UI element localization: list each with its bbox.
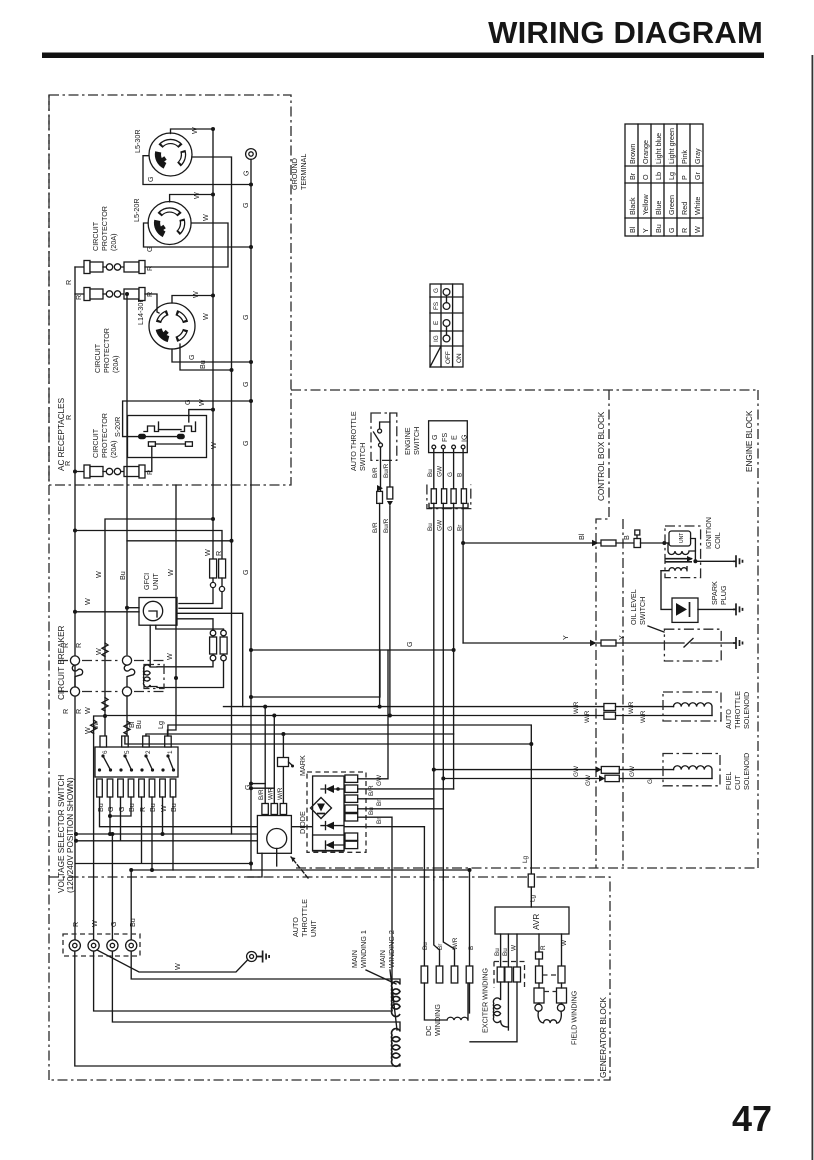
secondary winding: [661, 567, 687, 571]
svg-text:WINDING 1: WINDING 1: [359, 930, 368, 968]
coil input connector: [634, 530, 664, 548]
wire Bu bus from L5-30R: [192, 157, 232, 834]
auto throttle switch box: [371, 413, 397, 492]
pin wires: [358, 650, 388, 779]
svg-text:Gr: Gr: [693, 171, 702, 180]
svg-text:W: W: [693, 226, 702, 233]
svg-text:W/R: W/R: [640, 710, 647, 723]
svg-text:OIL LEVEL: OIL LEVEL: [629, 589, 638, 625]
wire nest below VSS: [100, 797, 425, 827]
svg-text:W/R: W/R: [573, 701, 580, 714]
svg-text:Y: Y: [617, 635, 626, 640]
svg-text:SOLENOID: SOLENOID: [742, 692, 751, 729]
wire Bu into GFCI: [127, 607, 139, 609]
diode D1: [321, 785, 344, 793]
oil level switch contact: [684, 639, 733, 648]
svg-text:FS: FS: [440, 433, 449, 442]
svg-text:Br: Br: [376, 799, 383, 806]
svg-text:B: B: [622, 535, 631, 540]
svg-text:Gray: Gray: [693, 148, 702, 164]
auto throttle solenoid dashed box: [663, 692, 721, 721]
svg-text:CIRCUIT: CIRCUIT: [93, 343, 102, 373]
main winding 1 coil: [392, 981, 400, 1016]
svg-text:AUTO THROTTLE: AUTO THROTTLE: [349, 411, 358, 471]
svg-text:SWITCH: SWITCH: [412, 427, 421, 455]
svg-text:S-20R: S-20R: [113, 417, 122, 437]
svg-text:DIODE: DIODE: [298, 811, 307, 834]
svg-text:W: W: [166, 569, 175, 576]
svg-text:W: W: [94, 571, 103, 578]
svg-text:FS: FS: [433, 302, 440, 310]
svg-text:PLUG: PLUG: [719, 585, 728, 605]
svg-text:UNIT: UNIT: [151, 573, 160, 590]
svg-text:W: W: [203, 549, 212, 556]
svg-text:Lg: Lg: [530, 894, 537, 902]
svg-text:(120/240V POSITION SHOWN): (120/240V POSITION SHOWN): [66, 777, 75, 893]
breaker dash-dot tie lines: [58, 660, 165, 662]
ground terminal: [246, 149, 257, 160]
control/engine area dashed box top: [291, 389, 758, 391]
resistor zigzag W: [91, 720, 97, 733]
outer left dashed border: [48, 95, 50, 1080]
svg-text:GW: GW: [437, 519, 444, 531]
svg-text:R: R: [145, 292, 154, 297]
svg-text:W: W: [91, 722, 100, 729]
GFCI trip coil: [143, 665, 164, 689]
svg-text:W: W: [201, 214, 210, 221]
svg-text:G: G: [146, 176, 155, 182]
sensing resistor pair lower: [157, 630, 227, 687]
svg-text:2: 2: [145, 750, 152, 754]
VSS top stub terminals: [100, 736, 171, 747]
svg-text:Br: Br: [437, 943, 444, 950]
svg-text:G: G: [647, 779, 654, 784]
svg-text:Br: Br: [628, 172, 637, 180]
svg-text:Bu/R: Bu/R: [383, 463, 390, 478]
coil output to ground: [691, 539, 733, 562]
main winding 2 coil: [392, 1029, 400, 1067]
wire G bus: [250, 159, 252, 870]
svg-text:White: White: [693, 197, 702, 215]
svg-text:W: W: [83, 598, 92, 605]
svg-text:WINDING 2: WINDING 2: [387, 930, 396, 968]
svg-text:Green: Green: [667, 195, 676, 215]
svg-text:W: W: [83, 707, 92, 714]
wire G from L5-20R: [249, 245, 253, 249]
svg-text:B/R: B/R: [372, 522, 379, 533]
svg-text:IG: IG: [433, 335, 440, 342]
resistor zigzag Bl: [124, 721, 130, 734]
spark plug box: [672, 598, 733, 622]
engine switch lead wires: [434, 449, 463, 489]
svg-text:FUEL: FUEL: [724, 772, 733, 790]
svg-text:Bu: Bu: [128, 918, 137, 927]
svg-text:Bu: Bu: [118, 571, 127, 580]
diode block inner box: [313, 776, 344, 851]
field connector rects row2: [534, 988, 544, 1003]
svg-text:GW: GW: [437, 465, 444, 477]
circuit protector CP1: [75, 223, 228, 274]
fuel cut solenoid connectors: [596, 766, 602, 773]
svg-text:B/R: B/R: [258, 789, 265, 800]
svg-text:ON: ON: [456, 353, 463, 363]
svg-text:W/R: W/R: [584, 710, 591, 723]
fuel cut solenoid dashed box: [663, 754, 720, 786]
svg-text:CIRCUIT: CIRCUIT: [91, 428, 100, 458]
svg-text:Light blue: Light blue: [654, 133, 663, 164]
auto throttle solenoid connectors: [604, 704, 616, 711]
svg-text:Lg: Lg: [522, 855, 529, 863]
ignition coil unit box: [664, 531, 690, 546]
frame ground wire W: [97, 950, 248, 972]
wire into GFCI left: [75, 611, 139, 613]
wire W down from AC box: [168, 485, 177, 737]
svg-text:5: 5: [124, 750, 131, 754]
svg-text:PROTECTOR: PROTECTOR: [100, 413, 109, 458]
svg-text:R: R: [214, 551, 223, 556]
engine switch drops: [434, 503, 602, 769]
wire W drop to selector: [105, 519, 213, 736]
svg-text:Yellow: Yellow: [641, 194, 650, 215]
svg-text:W: W: [192, 192, 201, 199]
svg-text:Br: Br: [376, 817, 383, 824]
duplex receptacle S-20R: [128, 416, 207, 458]
wire G from L5-20R wrap: [144, 223, 252, 247]
wire R feed to GFCI resistor: [75, 531, 222, 560]
svg-text:GW: GW: [573, 765, 580, 777]
auto throttle unit relay box: [257, 816, 291, 854]
svg-text:R: R: [63, 461, 72, 466]
engine switch box: [429, 421, 469, 453]
wire Bu link: [127, 540, 232, 542]
svg-text:GFCI: GFCI: [142, 573, 151, 590]
svg-text:AVR: AVR: [532, 914, 541, 930]
primary winding: [668, 543, 695, 555]
page right edge scan line: [812, 55, 814, 1160]
svg-text:MAIN: MAIN: [378, 950, 387, 968]
Lg connector above AVR: [528, 874, 534, 887]
svg-text:G: G: [241, 440, 250, 446]
resistor zigzag 1: [102, 643, 108, 656]
control/engine area dashed bottom: [296, 867, 758, 869]
svg-text:PROTECTOR: PROTECTOR: [102, 328, 111, 373]
svg-text:DC: DC: [424, 1026, 433, 1036]
svg-text:(20A): (20A): [111, 355, 120, 373]
exciter winding coil: [493, 982, 508, 1027]
ground symbol oil switch: [733, 637, 743, 649]
svg-text:W: W: [90, 920, 99, 927]
svg-text:Bu: Bu: [134, 720, 143, 729]
svg-text:W: W: [94, 648, 103, 655]
leader to relay box: [291, 857, 308, 878]
svg-text:WINDING: WINDING: [433, 1004, 442, 1036]
DC winding coil: [424, 983, 469, 1020]
wire W/R bus: [105, 715, 604, 717]
svg-text:Bu: Bu: [427, 469, 434, 477]
wire W to MW1 bottom: [94, 951, 392, 1011]
svg-text:GROUND: GROUND: [290, 158, 299, 190]
svg-text:G: G: [433, 288, 440, 293]
terminal W: [88, 940, 99, 951]
svg-text:SPARK: SPARK: [710, 581, 719, 605]
wire G to MW2 top: [112, 951, 400, 1031]
svg-text:6: 6: [102, 750, 109, 754]
svg-text:Bu: Bu: [654, 224, 663, 233]
svg-text:R: R: [64, 280, 73, 285]
svg-text:Lg: Lg: [156, 721, 165, 729]
wire Bl to ignition coil: [463, 542, 605, 544]
svg-text:R: R: [61, 643, 70, 648]
svg-text:G: G: [241, 569, 250, 575]
svg-text:L5-30R: L5-30R: [133, 129, 142, 153]
relay feeds: [265, 707, 283, 804]
thermo sensor small part: [278, 758, 295, 768]
DC winding connector rects: [421, 966, 428, 983]
svg-text:Lb: Lb: [654, 172, 663, 180]
leader MW2: [390, 970, 397, 1030]
wire Y to oil level switch: [463, 642, 601, 644]
svg-text:Blue: Blue: [654, 201, 663, 215]
arrow connector: [592, 540, 598, 546]
control box block dash-dot boundary: [596, 390, 609, 868]
wire Bu bus: [125, 736, 531, 744]
frame ground terminal: [247, 952, 257, 962]
svg-text:R: R: [64, 415, 73, 420]
generator block dashed box: [49, 877, 610, 1080]
svg-text:GW: GW: [376, 774, 383, 786]
relay terminal rects: [262, 804, 268, 815]
svg-text:Pink: Pink: [680, 150, 689, 164]
svg-text:Bu: Bu: [422, 942, 429, 950]
svg-text:CIRCUIT: CIRCUIT: [91, 221, 100, 251]
svg-text:W: W: [201, 313, 210, 320]
junction R/CP3: [73, 470, 77, 474]
svg-text:W: W: [191, 291, 200, 298]
svg-text:R: R: [74, 709, 83, 714]
ground symbol frame: [257, 951, 270, 963]
AVR box: [495, 907, 569, 934]
svg-text:R: R: [145, 266, 154, 271]
svg-text:W/R: W/R: [452, 937, 459, 950]
svg-text:R: R: [680, 228, 689, 233]
circuit protector CP3: [75, 446, 152, 478]
svg-text:Bu/R: Bu/R: [383, 518, 390, 533]
terminal Bu: [126, 940, 137, 951]
svg-text:FIELD WINDING: FIELD WINDING: [570, 990, 579, 1045]
circuit breaker pole 1: [70, 656, 82, 696]
svg-text:R: R: [61, 709, 70, 714]
wire W from L5-20R: [170, 195, 213, 202]
svg-text:P: P: [680, 175, 689, 180]
ground symbol spark plug: [733, 603, 743, 615]
leader MW1: [366, 970, 396, 984]
svg-text:Bu: Bu: [494, 948, 501, 956]
core lines with arrow: [665, 559, 692, 562]
svg-text:W: W: [511, 944, 518, 951]
resistor W upper: [179, 559, 217, 604]
exciter connector rects: [497, 967, 504, 982]
wire W from L14-30R: [172, 296, 213, 304]
circuit protector CP2: [75, 288, 159, 314]
svg-text:CIRCUIT BREAKER: CIRCUIT BREAKER: [57, 625, 66, 700]
svg-text:L14-30R: L14-30R: [136, 297, 145, 325]
svg-text:W: W: [190, 127, 199, 134]
AC receptacles dashed box: [49, 95, 291, 485]
title rule: [42, 53, 764, 59]
svg-text:G: G: [405, 641, 414, 647]
wire W bus from L5-30R: [171, 129, 214, 559]
svg-text:Orange: Orange: [641, 140, 650, 164]
svg-text:B/R: B/R: [368, 785, 375, 796]
wire G from L5-30R to G bus: [143, 156, 251, 185]
diode block dashed box: [307, 772, 366, 852]
svg-text:W/R: W/R: [277, 787, 284, 800]
engine block right dashed border: [757, 390, 759, 868]
svg-text:SOLENOID: SOLENOID: [742, 753, 751, 790]
ATS connector diode left: [377, 485, 383, 707]
terminal G: [107, 940, 118, 951]
GFCI bottom wires: [149, 625, 151, 665]
svg-text:AUTO: AUTO: [291, 917, 300, 937]
svg-text:R: R: [74, 643, 83, 648]
diode bridge diamond: [311, 798, 332, 819]
ignition coil dashed box: [665, 526, 701, 578]
leader oil level switch: [648, 626, 664, 632]
svg-text:B: B: [457, 473, 464, 477]
output terminal dashed box: [63, 934, 140, 956]
svg-text:CUT: CUT: [733, 775, 742, 790]
svg-text:THROTTLE: THROTTLE: [733, 691, 742, 729]
svg-text:G: G: [430, 434, 439, 440]
svg-text:Bu: Bu: [502, 948, 509, 956]
svg-text:EXCITER WINDING: EXCITER WINDING: [481, 968, 490, 1033]
svg-text:Red: Red: [680, 202, 689, 215]
ground symbol ignition: [733, 555, 743, 567]
svg-text:E: E: [450, 435, 459, 440]
svg-text:AC RECEPTACLES: AC RECEPTACLES: [57, 397, 66, 471]
svg-text:W: W: [197, 399, 206, 406]
svg-text:GENERATOR BLOCK: GENERATOR BLOCK: [599, 996, 608, 1078]
field winding coil with slip rings: [535, 1004, 542, 1011]
svg-text:G: G: [183, 399, 192, 405]
svg-text:B/R: B/R: [372, 467, 379, 478]
exciter winding feeds: [501, 934, 517, 967]
svg-text:SWITCH: SWITCH: [358, 443, 367, 471]
svg-text:Brown: Brown: [628, 144, 637, 164]
svg-text:G: G: [241, 314, 250, 320]
spark plug wire: [661, 571, 672, 610]
oil level switch dashed box: [664, 629, 721, 661]
svg-text:VOLTAGE SELECTOR SWITCH: VOLTAGE SELECTOR SWITCH: [57, 775, 66, 893]
svg-text:UNT: UNT: [679, 533, 685, 543]
svg-text:W: W: [173, 963, 182, 970]
svg-text:TERMINAL: TERMINAL: [299, 154, 308, 190]
receptacle L14-30R: [149, 303, 195, 349]
GFCI right outputs: [177, 613, 243, 706]
svg-text:W: W: [209, 442, 218, 449]
svg-text:IGNITION: IGNITION: [704, 517, 713, 549]
svg-text:PROTECTOR: PROTECTOR: [100, 206, 109, 251]
svg-text:R: R: [138, 807, 147, 812]
svg-text:G: G: [241, 202, 250, 208]
svg-text:B: B: [468, 946, 475, 950]
svg-text:1: 1: [167, 750, 174, 754]
svg-text:GW: GW: [629, 765, 636, 777]
receptacle L5-20R: [148, 202, 191, 245]
svg-text:E: E: [433, 321, 440, 325]
circuit breaker pole 2: [122, 656, 134, 696]
svg-text:(20A): (20A): [109, 440, 118, 458]
svg-text:Bl: Bl: [577, 533, 586, 540]
svg-text:G: G: [117, 806, 126, 812]
svg-text:AUTO: AUTO: [724, 709, 733, 729]
wire W branch to terminal: [94, 716, 105, 946]
wire Bu from L14-30R: [180, 344, 232, 370]
engine block inner dashed line: [622, 519, 624, 868]
wire Bu to MW1 top: [131, 951, 400, 984]
svg-text:Y: Y: [561, 635, 570, 640]
svg-text:R: R: [71, 922, 80, 927]
wire R bus left: [74, 267, 76, 946]
svg-text:Bu: Bu: [368, 807, 375, 815]
svg-text:G: G: [447, 472, 454, 477]
wire W from S-20R: [189, 410, 213, 422]
receptacle L5-30R: [149, 133, 192, 176]
connector bracket dashed: [427, 485, 471, 509]
wire G' terminal feed: [111, 834, 113, 946]
svg-text:O: O: [641, 174, 650, 180]
svg-text:R: R: [540, 945, 547, 950]
svg-text:OFF: OFF: [445, 351, 452, 364]
diode D3 bottom: [313, 835, 344, 851]
wire G from L14-30R: [172, 349, 251, 362]
resistor R upper: [179, 559, 226, 608]
svg-text:THROTTLE: THROTTLE: [300, 899, 309, 937]
wire Bu terminal feed: [130, 870, 132, 946]
svg-text:R: R: [145, 470, 154, 475]
svg-text:G: G: [667, 227, 676, 233]
svg-text:G: G: [145, 246, 154, 252]
GFCI unit box: [139, 598, 177, 626]
svg-text:W: W: [159, 805, 168, 812]
diode block pin rects: [345, 775, 358, 782]
svg-text:COIL: COIL: [713, 532, 722, 549]
fuel cut solenoid coil: [674, 766, 713, 779]
svg-text:MAIN: MAIN: [350, 950, 359, 968]
svg-text:W/R: W/R: [628, 701, 635, 714]
svg-text:L5-20R: L5-20R: [132, 198, 141, 222]
svg-text:Black: Black: [628, 197, 637, 215]
svg-text:Light green: Light green: [667, 128, 676, 164]
auto throttle solenoid coil: [674, 703, 713, 716]
DC winding feeds: [423, 827, 425, 966]
svg-text:Bu: Bu: [198, 360, 207, 369]
svg-text:Bl: Bl: [628, 226, 637, 233]
wire R to MW2 bottom: [75, 951, 400, 1066]
svg-text:G: G: [187, 354, 196, 360]
svg-text:W/R: W/R: [268, 787, 275, 800]
engine switch connector rects: [431, 489, 436, 504]
svg-text:MARK: MARK: [298, 755, 307, 776]
relay lower stubs: [248, 853, 277, 877]
svg-text:UNIT: UNIT: [309, 920, 318, 937]
svg-text:WIRING DIAGRAM: WIRING DIAGRAM: [488, 15, 763, 50]
resistor zigzag 2: [102, 698, 108, 711]
svg-text:W: W: [165, 653, 174, 660]
terminal R: [69, 940, 80, 951]
wire Bl bus: [146, 734, 454, 736]
svg-text:Bu: Bu: [96, 803, 105, 812]
